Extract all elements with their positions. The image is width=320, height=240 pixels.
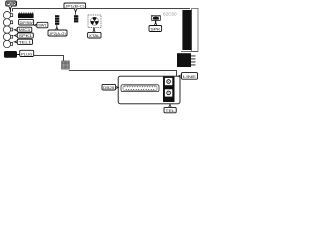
callout XTAL <box>88 28 101 38</box>
jack panel (black) <box>163 77 175 102</box>
jack J3 <box>3 26 12 33</box>
power plug P1 (black component at left edge) <box>4 51 17 58</box>
svg-text:TEL: TEL <box>165 109 174 113</box>
callout TEL (jack J5 label) <box>14 39 32 44</box>
trimmer VR1 (small component) <box>151 15 160 20</box>
callout JP2(A-G) <box>48 25 67 36</box>
svg-text:PLUG: PLUG <box>21 52 32 56</box>
svg-text:JP2(A-G): JP2(A-G) <box>49 32 66 36</box>
svg-text:SPK: SPK <box>150 27 161 31</box>
speaker SPK1 (hatched box) <box>62 61 69 69</box>
rear panel (rounded box) <box>118 76 180 104</box>
jumper JP2 (4 position block) <box>55 15 59 25</box>
svg-text:SPK1: SPK1 <box>19 34 32 38</box>
component box DIP/SW label B <box>19 19 34 25</box>
callout TEL (bottom) <box>164 104 176 112</box>
jack J5 <box>3 40 12 47</box>
callout SPK <box>149 21 162 32</box>
wire: speaker to rear panel <box>69 71 177 77</box>
svg-text:DIP/SW: DIP/SW <box>20 21 34 25</box>
callout JP1(B-C) <box>64 3 86 15</box>
callout PWR (top-left label box) <box>6 1 17 12</box>
svg-text:MIC1: MIC1 <box>19 28 31 32</box>
svg-text:JP1(B-C): JP1(B-C) <box>65 5 86 9</box>
jack LINE (square jack 1) <box>165 78 172 85</box>
callout SW1 <box>34 22 48 28</box>
callout SPK (jack J4 label) <box>14 33 33 38</box>
jack J1 <box>3 12 12 19</box>
svg-text:SW1: SW1 <box>38 23 47 28</box>
callout DB25 <box>102 84 118 90</box>
jumper JP1 (3 position block) <box>74 15 78 22</box>
DIP switch SW1 (black bar with pins) <box>18 12 34 18</box>
connector DB25 P2 <box>121 85 159 92</box>
svg-text:XTAL: XTAL <box>89 34 100 38</box>
callout LINE (top right) <box>179 73 198 80</box>
svg-text:TEL1: TEL1 <box>19 40 32 44</box>
svg-text:LINE: LINE <box>183 75 197 79</box>
svg-text:PWR: PWR <box>7 1 16 6</box>
callout PLUG (label of P1) <box>20 50 34 56</box>
wire: plug cable to speaker <box>34 56 64 62</box>
jack PHONE (square jack 2) <box>165 89 172 96</box>
callout MIC (jack J3 label) <box>14 27 32 32</box>
wire: board top edge <box>13 9 191 12</box>
crystal Y1 <box>88 15 101 28</box>
svg-text:DB25: DB25 <box>103 86 114 90</box>
jack J4 <box>3 33 12 40</box>
jack J2 <box>3 19 12 26</box>
svg-text:82C50: 82C50 <box>163 11 177 16</box>
transformer T1 (black block with pins) <box>177 53 196 67</box>
connector CN1 card edge (right side) <box>181 8 198 51</box>
